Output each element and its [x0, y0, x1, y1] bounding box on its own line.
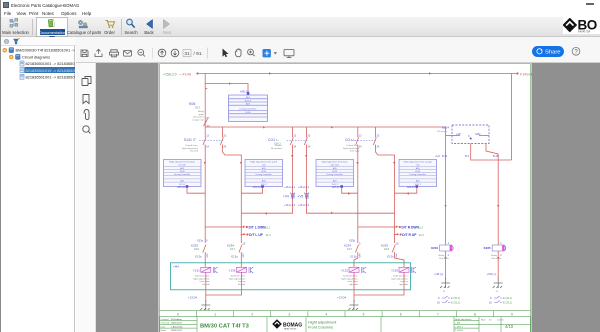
svg-text:Tilt sensor: Tilt sensor: [439, 257, 449, 260]
wire coil K234 to ground: [445, 251, 447, 279]
svg-text:1: 1: [214, 313, 216, 317]
ECU input table T2 hight adjustment front up left: [245, 160, 283, 187]
svg-text:31: 31: [184, 51, 190, 57]
svg-text:FAYAT GROUP: FAYAT GROUP: [284, 328, 297, 331]
svg-text:R.Zanlboni: R.Zanlboni: [171, 319, 182, 321]
svg-text:+16.A,4.1: +16.A,4.1: [284, 185, 296, 189]
svg-text:Front Columns: Front Columns: [308, 326, 333, 330]
svg-text:upper: upper: [198, 113, 204, 116]
contact cross-reference K234: [437, 296, 440, 305]
svg-text:+16.A,4.4: +16.A,4.4: [284, 203, 296, 207]
svg-text:CO.r /–: CO.r /–: [345, 138, 356, 142]
svg-text:Relay,: Relay,: [491, 255, 497, 257]
svg-text:hight adjustment: hight adjustment: [343, 147, 359, 150]
svg-text:front up: front up: [238, 280, 246, 283]
svg-text:von 51: von 51: [497, 320, 504, 322]
svg-text:23.7: 23.7: [347, 247, 353, 251]
wire branch to ECM controller: [205, 84, 248, 94]
footer ruler: [160, 311, 531, 317]
svg-text:ECM: ECM: [415, 171, 420, 173]
wire T4 pin jog: [395, 188, 417, 193]
svg-text:CO1 /–: CO1 /–: [268, 138, 279, 142]
svg-text:Hight adjustment: Hight adjustment: [308, 321, 337, 325]
svg-text:Solenoid valve,: Solenoid valve,: [343, 276, 358, 278]
svg-text:+1: +1: [529, 73, 533, 77]
svg-text:26/01/2017: 26/01/2017: [171, 323, 183, 325]
wire T1 pin jog: [187, 188, 205, 193]
svg-text:+U8 [+]: +U8 [+]: [487, 272, 496, 276]
svg-text:31.2: 31.2: [266, 233, 272, 237]
wire column V5 mid-right: [307, 146, 395, 213]
svg-text:K235: K235: [381, 244, 388, 248]
svg-text:Hight adjustment front down: Hight adjustment front down: [169, 161, 196, 164]
node D/T L UP: [241, 234, 244, 236]
svg-text:821836501019 -> 821836509: 821836501019 -> 821836509: [26, 68, 76, 73]
svg-text:XA 1: XA 1: [246, 96, 251, 99]
ECU input table T4 hight adjustment front up right: [399, 160, 437, 187]
wire bus 2 mid horizontal: [205, 126, 445, 128]
svg-text:S141 /7: S141 /7: [184, 138, 196, 142]
svg-text:front down: front down: [200, 280, 211, 283]
svg-text:Hight adjustment front up left: Hight adjustment front up left: [250, 161, 277, 164]
svg-text:Hight adjustment: Hight adjustment: [455, 318, 472, 321]
wire coil K235 to ground: [497, 251, 499, 279]
svg-text:6: 6: [400, 313, 402, 317]
svg-text:4/10: 4/10: [505, 324, 514, 329]
wire column C switch right to valves: [357, 146, 359, 243]
svg-text:Driving Controller: Driving Controller: [240, 108, 257, 111]
schematic page: [96, 63, 600, 332]
svg-text:B.45: B.45: [493, 154, 499, 158]
svg-text:Hight adjustment front down: Hight adjustment front down: [322, 161, 349, 164]
notch under Documentation: [49, 36, 55, 40]
svg-text:Date: Date: [161, 325, 166, 328]
svg-text:31.2: 31.2: [419, 233, 425, 237]
svg-text:4: 4: [326, 313, 328, 317]
page paper: [159, 63, 532, 332]
contact cross-reference K235: [489, 296, 492, 305]
svg-text:scraper rear: scraper rear: [192, 118, 204, 121]
svg-text:+U8 [+]: +U8 [+]: [434, 272, 443, 276]
svg-text:X23b: X23b: [349, 239, 356, 243]
wire to node D/T R UP: [394, 234, 396, 236]
svg-text:left side: left side: [179, 164, 187, 167]
wire valve returns right: [354, 272, 404, 302]
svg-text:limit switch,: limit switch,: [193, 116, 205, 119]
svg-text:Solenoid valve,: Solenoid valve,: [231, 276, 246, 278]
ECU input table T1 hight adjustment front down left: [164, 160, 202, 187]
ground symbol K235: [493, 278, 503, 288]
svg-text:D/T L UP: D/T L UP: [249, 233, 263, 237]
svg-text:D/T R UP: D/T R UP: [402, 233, 417, 237]
wire switch top stubs to bus2: [223, 127, 376, 136]
wire to node D/T L DWN: [205, 226, 241, 228]
svg-text:right side: right side: [330, 164, 339, 167]
wire to node D/T R DWN: [358, 226, 394, 228]
wire column D from switch pin24 right: [376, 146, 395, 243]
svg-text:lift machine: lift machine: [271, 147, 283, 150]
BOMAG logo top right: [563, 17, 600, 34]
svg-text:E (31.1): E (31.1): [451, 301, 460, 305]
svg-text:B.4: B.4: [465, 154, 469, 158]
svg-text:+16.A,5.1: +16.A,5.1: [298, 185, 310, 189]
svg-text:5: 5: [363, 313, 365, 317]
svg-text:Relay,: Relay,: [198, 111, 204, 113]
svg-text:Created: Created: [161, 318, 170, 321]
svg-text:0: 0: [177, 313, 179, 317]
svg-text:Hight adjustment front up righ: Hight adjustment front up right: [404, 161, 432, 164]
svg-text:Tilt sensor: Tilt sensor: [491, 257, 501, 260]
svg-text:K234: K234: [431, 246, 438, 250]
svg-text:A05:23: A05:23: [407, 186, 416, 189]
ground symbol left: [200, 300, 210, 310]
PDF sidebar: [76, 63, 96, 332]
svg-text:Driving Controller: Driving Controller: [410, 173, 426, 176]
svg-text:hight adjustment,: hight adjustment,: [193, 277, 210, 280]
svg-text:+UB: +UB: [456, 133, 461, 136]
title block: [160, 317, 531, 332]
svg-text:ECM: ECM: [246, 112, 251, 114]
svg-text:X2.3a: X2.3a: [231, 256, 238, 259]
svg-text:3: 3: [288, 313, 290, 317]
svg-text:A05:33: A05:33: [253, 186, 262, 189]
svg-text:Control lever,: Control lever,: [185, 144, 198, 147]
svg-text:BM/2000/30 T4f 821836501001 ->: BM/2000/30 T4f 821836501001 -> 821: [16, 48, 76, 53]
svg-text:Driving Controller: Driving Controller: [174, 173, 190, 176]
valve assembly box +MA: [171, 263, 411, 290]
wire sensor signal to bus right: [471, 144, 512, 161]
wire column A switch to D/T L DWN: [204, 146, 206, 243]
svg-text:+13.D4: +13.D4: [337, 296, 347, 300]
ground symbol right: [349, 300, 359, 310]
toolbar band: [1, 17, 600, 37]
menu bar: [4, 11, 11, 16]
tree panel: [1, 46, 75, 332]
svg-text:hight adjustment,: hight adjustment,: [341, 277, 358, 280]
svg-text:front up: front up: [401, 280, 409, 283]
svg-text:Y136: Y136: [391, 269, 398, 273]
svg-text:2: 2: [251, 313, 253, 317]
svg-text:= M11.1: = M11.1: [455, 326, 464, 328]
wire contacts into valve box: [205, 254, 404, 267]
svg-text:D/T R DWN: D/T R DWN: [402, 226, 420, 230]
wire to node D/T L UP: [240, 234, 242, 236]
node D/T L DWN: [240, 226, 243, 228]
svg-text:+15A,2.0: +15A,2.0: [163, 73, 177, 77]
svg-text:29.2: 29.2: [195, 106, 201, 110]
svg-text:left side: left side: [202, 283, 210, 286]
svg-text:23.6: 23.6: [384, 247, 390, 251]
svg-text:E (31.1): E (31.1): [503, 296, 512, 300]
svg-text:K234: K234: [227, 244, 234, 248]
svg-text:31.2: 31.2: [418, 226, 424, 230]
svg-text:FAYAT GR: FAYAT GR: [578, 30, 590, 33]
svg-text:X2.3b: X2.3b: [387, 256, 394, 259]
wire relay column F: [497, 160, 499, 245]
svg-text:821836501001 -> 8218365010: 821836501001 -> 8218365010: [26, 61, 76, 66]
toolbar icons svg: [1, 17, 600, 37]
svg-text:front down: front down: [348, 280, 359, 283]
title bar: [1, 0, 600, 9]
svg-text:E (31.1): E (31.1): [451, 296, 460, 300]
svg-text:Y132: Y132: [341, 269, 348, 273]
svg-text:ECU 3: ECU 3: [245, 100, 252, 102]
svg-text:K234: K234: [344, 244, 351, 248]
svg-text:Solenoid valve,: Solenoid valve,: [195, 276, 210, 278]
svg-text:K235: K235: [191, 244, 198, 248]
ground symbol K234: [440, 278, 450, 288]
svg-text:K235: K235: [484, 246, 491, 250]
svg-text:X2.3b: X2.3b: [350, 256, 357, 259]
wire sensor feed left column E: [445, 127, 447, 245]
svg-text:9: 9: [511, 313, 513, 317]
svg-text:hight adjustment,: hight adjustment,: [229, 277, 246, 280]
svg-text:23.7: 23.7: [230, 247, 236, 251]
svg-text:+U2: +U2: [435, 154, 440, 158]
node D/T R UP: [394, 234, 397, 236]
svg-text:Driving Controller: Driving Controller: [327, 173, 343, 176]
svg-text:Driving Controller: Driving Controller: [256, 173, 272, 176]
tilt sensor B024 dashed box: [452, 125, 489, 144]
wire column B from switch S141 pin24: [223, 146, 242, 243]
svg-text:7: 7: [437, 313, 439, 317]
svg-text:X2.3a: X2.3a: [195, 256, 202, 259]
contact pin labels: [195, 256, 398, 259]
wire T2 pin jog: [241, 188, 262, 193]
svg-text:—F14S: —F14S: [179, 73, 192, 77]
svg-text:Control lever,: Control lever,: [346, 144, 359, 147]
svg-text:+13.D4: +13.D4: [188, 296, 198, 300]
svg-text:Solenoid valve,: Solenoid valve,: [393, 276, 408, 278]
svg-text:ECM: ECM: [180, 171, 185, 173]
svg-text:E (31.1): E (31.1): [503, 301, 512, 305]
svg-text:ECM: ECM: [332, 171, 337, 173]
wire valve returns left: [206, 272, 242, 302]
svg-text:Y135: Y135: [228, 269, 235, 273]
svg-text:Relay,: Relay,: [439, 255, 445, 257]
wire column V4 mid-left: [241, 146, 292, 213]
svg-text:31.2: 31.2: [265, 226, 271, 230]
svg-text:+ BM: + BM: [455, 323, 460, 325]
svg-text:X23a: X23a: [197, 239, 204, 243]
svg-text:K06: K06: [189, 102, 195, 106]
node D/T R DWN: [393, 226, 396, 228]
svg-text:ECM: ECM: [261, 171, 266, 173]
wire T3 pin jog: [342, 188, 358, 193]
svg-text:+16.A,5.4: +16.A,5.4: [298, 203, 310, 207]
svg-text:left side: left side: [238, 283, 246, 286]
svg-text:8: 8: [474, 313, 476, 317]
svg-text:A05:42: A05:42: [177, 186, 186, 189]
svg-text:Checked: Checked: [161, 323, 170, 325]
svg-text:23.6: 23.6: [194, 247, 200, 251]
wire top supply bus F14S: [197, 74, 517, 161]
svg-text:hight adjustment: hight adjustment: [182, 147, 198, 150]
svg-text:B.41: B.41: [442, 154, 448, 158]
svg-text:821836501001 -> 821836509: 821836501001 -> 821836509: [26, 74, 76, 79]
frame border: [160, 64, 531, 332]
svg-text:L.Amorettini: L.Amorettini: [171, 325, 183, 328]
gray doc area: [96, 63, 600, 332]
svg-text:Share: Share: [545, 49, 560, 55]
svg-text:+V4: +V4: [283, 195, 289, 199]
svg-text:+V5: +V5: [298, 195, 304, 199]
wire column A from bus to switch S141: [205, 74, 208, 136]
svg-text:Y131: Y131: [193, 269, 200, 273]
svg-text:BM/30 CAT T4f T3: BM/30 CAT T4f T3: [200, 324, 250, 330]
svg-text:Circuit diagrams: Circuit diagrams: [22, 55, 50, 60]
svg-text:GND: GND: [475, 133, 481, 136]
svg-text:Switch,: Switch,: [275, 144, 282, 147]
sub bar with two icons: [1, 37, 600, 46]
svg-text:A05:11: A05:11: [332, 186, 340, 189]
PDF viewer toolbar: [76, 37, 600, 63]
svg-text:hight adjustment,: hight adjustment,: [391, 277, 408, 280]
svg-text:D/T L DWN: D/T L DWN: [249, 226, 267, 230]
ECU input table T3 hight adjustment front down right: [316, 160, 354, 187]
svg-text:/ 91: / 91: [194, 51, 202, 57]
svg-text:front left: front left: [190, 150, 198, 153]
svg-text:+MA: +MA: [173, 265, 179, 269]
svg-text:Blatt: Blatt: [481, 319, 486, 322]
